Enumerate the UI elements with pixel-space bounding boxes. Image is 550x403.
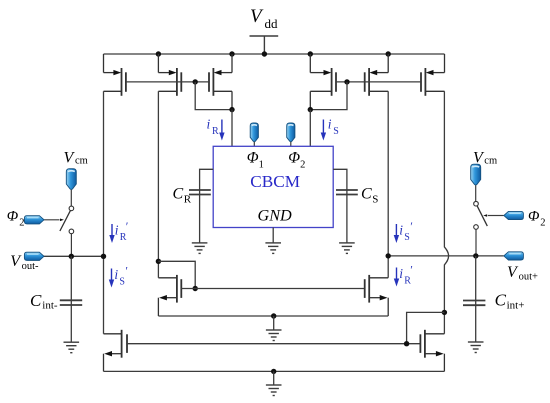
probe pin Vcm left xyxy=(66,169,76,206)
wire left outer vertical (M1 drain to M7 drain) xyxy=(103,91,105,333)
probe pill Vout- xyxy=(24,252,44,260)
wire top rail xyxy=(104,53,445,55)
svg-text:R: R xyxy=(120,232,127,243)
capacitor Cint- xyxy=(60,256,82,342)
wire gate bus right PMOS group xyxy=(336,81,421,83)
node Vout- switch xyxy=(69,254,74,259)
label Cint- xyxy=(30,291,58,311)
transistor M2 (PMOS inner-left) xyxy=(158,54,181,96)
transistor M8 (NMOS middle-right) xyxy=(365,275,389,316)
wire stub to ground bottom xyxy=(273,371,275,385)
svg-text:GND: GND xyxy=(258,207,292,225)
ground at middle bus xyxy=(266,330,282,341)
node Vout+ main xyxy=(386,253,391,258)
svg-text:′: ′ xyxy=(125,264,128,278)
wire diode link M10 xyxy=(407,312,445,343)
svg-text:i: i xyxy=(115,223,119,238)
svg-text:dd: dd xyxy=(265,16,279,31)
node rail-M4 xyxy=(308,51,313,56)
svg-text:i: i xyxy=(399,266,403,281)
node M10 diode top xyxy=(442,310,447,315)
svg-text:′: ′ xyxy=(126,219,129,233)
probe pin Vcm right xyxy=(471,164,481,201)
wire PHI2 control right xyxy=(488,215,504,217)
transistor M5 (PMOS inner-right) xyxy=(365,54,389,96)
node iS drain xyxy=(308,107,313,112)
svg-text:R: R xyxy=(212,126,219,137)
label PHI2 xyxy=(288,149,305,170)
switch S1 bottom contact xyxy=(69,229,74,234)
svg-text:S: S xyxy=(119,277,125,288)
node Vout- main xyxy=(101,254,106,259)
node iR drain xyxy=(229,107,234,112)
svg-text:i: i xyxy=(114,267,118,282)
svg-text:C: C xyxy=(173,186,184,203)
ground at Cint- xyxy=(64,342,80,353)
wire source bus middle NMOS pair xyxy=(158,315,388,317)
svg-text:C: C xyxy=(495,291,507,310)
svg-text:C: C xyxy=(30,291,42,310)
transistor M7 (NMOS diode-connected middle-left) xyxy=(158,275,181,316)
capacitor CS xyxy=(333,169,358,243)
probe pill PHI2 left xyxy=(24,216,44,224)
wire switch S1 to Vout- node xyxy=(70,234,72,256)
node source bus middle xyxy=(271,313,276,318)
wire CBCM bottom to ground xyxy=(272,228,274,243)
wire gate bus bottom NMOS pair xyxy=(127,343,420,345)
node left PMOS gate xyxy=(193,79,198,84)
switch S1 arm xyxy=(60,211,71,231)
svg-text:Φ: Φ xyxy=(247,149,259,166)
probe pin PHI2 xyxy=(287,123,295,146)
ground at Cint+ xyxy=(468,342,484,353)
wire diode link M7 xyxy=(158,261,195,288)
svg-text:int-: int- xyxy=(42,299,58,311)
wire iS into CBCM xyxy=(309,110,311,147)
block CBCM box xyxy=(213,146,333,227)
label iR' right xyxy=(394,263,414,287)
label iR with arrow xyxy=(207,117,225,141)
label Vcm left xyxy=(64,149,88,166)
svg-text:C: C xyxy=(361,186,372,203)
svg-text:cm: cm xyxy=(484,155,497,166)
svg-text:R: R xyxy=(184,194,192,206)
svg-text:int+: int+ xyxy=(507,299,525,311)
svg-text:i: i xyxy=(399,223,403,238)
transistor M1 (PMOS outer-left) xyxy=(104,54,126,96)
transistor M4 (PMOS diode-connected, feeds iS) xyxy=(310,54,336,110)
svg-text:out+: out+ xyxy=(519,272,538,283)
wire source bus bottom NMOS pair xyxy=(104,370,445,372)
wire gate bus middle NMOS pair xyxy=(181,288,364,290)
probe pill Vout+ xyxy=(504,252,524,260)
svg-text:CBCM: CBCM xyxy=(250,172,300,191)
svg-text:Φ: Φ xyxy=(528,209,540,225)
wire gate bus left PMOS group xyxy=(126,81,209,83)
svg-text:i: i xyxy=(207,117,211,132)
label PHI2 left xyxy=(7,209,25,229)
wire right inner vertical (M5 drain to M8 drain) xyxy=(387,91,389,277)
wire left inner vertical (M2 drain to N-mirror node) xyxy=(157,91,159,277)
node right PMOS gate xyxy=(344,79,349,84)
svg-text:′: ′ xyxy=(410,263,413,277)
power symbol Vdd bar and stem xyxy=(250,36,279,54)
node Vout+ switch xyxy=(473,253,478,258)
switch S2 top contact xyxy=(474,201,479,206)
node rail-M3 xyxy=(229,51,234,56)
label Vcm right xyxy=(473,149,497,166)
svg-text:S: S xyxy=(372,194,378,206)
wire stub to ground middle xyxy=(273,316,275,330)
svg-text:S: S xyxy=(333,126,339,137)
svg-text:S: S xyxy=(404,232,410,243)
svg-text:Φ: Φ xyxy=(288,149,300,166)
probe pill PHI2 right xyxy=(504,211,524,219)
svg-text:out-: out- xyxy=(22,261,39,272)
transistor M10 (NMOS diode-connected bottom-right) xyxy=(420,330,444,372)
wire Vout+ xyxy=(388,255,504,257)
transistor M9 (NMOS bottom-left) xyxy=(104,330,128,372)
wire diode link M4 xyxy=(310,82,347,110)
ground at CBCM xyxy=(265,243,281,254)
label iR' left xyxy=(109,219,129,243)
svg-text:Φ: Φ xyxy=(7,209,19,225)
label Cint+ xyxy=(495,291,525,312)
label Vout- xyxy=(10,253,39,272)
wire iR into CBCM xyxy=(231,110,233,147)
svg-text:cm: cm xyxy=(75,155,88,166)
node rail-M2 xyxy=(156,51,161,56)
svg-text:2: 2 xyxy=(540,217,545,228)
label CS xyxy=(361,186,378,206)
node rail-Vdd xyxy=(262,51,267,56)
wire PHI2 control left xyxy=(43,219,59,221)
svg-text:i: i xyxy=(328,117,332,132)
label PHI2 right xyxy=(528,209,545,229)
node M10 gate xyxy=(404,341,409,346)
svg-text:2: 2 xyxy=(19,217,24,228)
wire right outer vertical with hop (M6 drain to M10 drain) xyxy=(444,91,448,333)
svg-text:2: 2 xyxy=(300,159,305,170)
switch S1 top contact xyxy=(69,206,74,211)
svg-text:′: ′ xyxy=(410,219,413,233)
ground at bottom bus xyxy=(266,385,282,396)
label Vout+ xyxy=(507,264,538,283)
node rail-M5 xyxy=(386,51,391,56)
wire diode link M3 xyxy=(195,82,232,110)
node source bus bottom xyxy=(271,369,276,374)
label iS' right xyxy=(394,219,414,243)
wire Vout- xyxy=(43,255,103,257)
label Vdd xyxy=(250,6,278,31)
label iS with arrow xyxy=(321,117,339,141)
probe pin PHI1 xyxy=(250,123,258,146)
label PHI1 xyxy=(247,149,264,170)
capacitor CR xyxy=(189,169,213,243)
label iS' left xyxy=(109,264,129,288)
node mirror1 diode xyxy=(156,259,161,264)
switch S2 arm xyxy=(477,206,487,226)
transistor M6 (PMOS outer-right) xyxy=(421,54,445,96)
label CR xyxy=(173,186,192,206)
ground at CS xyxy=(339,243,355,254)
switch S2 bottom contact xyxy=(474,225,479,230)
ground at CR xyxy=(192,243,208,254)
transistor M3 (PMOS diode-connected, feeds iR) xyxy=(209,54,232,110)
svg-text:1: 1 xyxy=(259,159,264,170)
wire switch S2 to Vout+ node xyxy=(475,229,477,256)
capacitor Cint+ xyxy=(463,256,485,342)
svg-text:R: R xyxy=(404,276,411,287)
node M7 gate xyxy=(193,286,198,291)
